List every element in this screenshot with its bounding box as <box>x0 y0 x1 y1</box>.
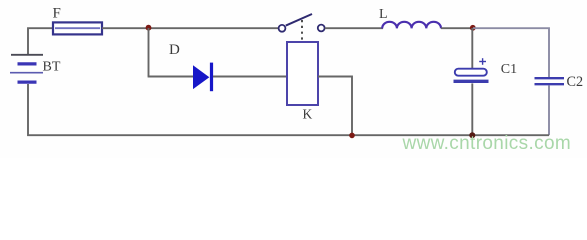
wire: top rail from fuse to switch left contact <box>102 27 279 29</box>
node: junction of fuse output and diode branch (red dot) <box>146 25 152 31</box>
wire: C1 branch from top junction down to + plate <box>471 28 473 70</box>
wire: top rail to right edge and down to C2 top plate <box>473 28 549 77</box>
wire: inductor to C1 junction <box>441 27 473 29</box>
switch right terminal circle <box>318 25 325 32</box>
svg-text:www.cntronics.com: www.cntronics.com <box>402 133 572 154</box>
svg-text:C1: C1 <box>501 62 517 77</box>
diode D <box>194 63 212 92</box>
fuse F <box>53 22 102 34</box>
wire: C1 bottom plate to bottom rail <box>471 83 473 135</box>
node: bottom rail junction at C1 (red dot) <box>469 132 475 138</box>
wire: relay coil right terminal to bottom rail <box>318 77 352 136</box>
wire: branch to diode anode <box>148 76 194 78</box>
battery BT <box>10 55 43 82</box>
svg-text:K: K <box>303 107 313 122</box>
switch arm <box>286 14 312 26</box>
node: junction of inductor output and C1 (red dot) <box>470 25 476 31</box>
wire: bottom rail <box>28 84 549 135</box>
wire: C2 bottom plate down to bottom-right corner <box>548 85 550 135</box>
wire: switch right contact to inductor <box>325 27 383 29</box>
inductor L <box>382 22 441 29</box>
relay coil K <box>287 42 318 105</box>
mechanical link (dotted) between switch and relay coil <box>301 20 303 41</box>
svg-text:BT: BT <box>43 60 61 75</box>
svg-text:D: D <box>169 42 180 58</box>
polarity + of C1 <box>479 58 486 65</box>
node: bottom rail junction at relay branch (red dot) <box>349 133 355 139</box>
wire: diode cathode to relay coil left terminal <box>213 76 287 78</box>
capacitor C2 <box>535 78 565 84</box>
switch (relay contact) left terminal circle <box>279 25 286 32</box>
wire: vertical drop from junction to diode branch <box>148 28 150 77</box>
capacitor C1 (electrolytic) <box>454 69 489 82</box>
wire: top rail left (battery top corner to fuse left lead) <box>28 28 54 55</box>
svg-text:C2: C2 <box>567 74 584 90</box>
svg-text:F: F <box>53 6 61 22</box>
svg-text:L: L <box>379 7 388 22</box>
